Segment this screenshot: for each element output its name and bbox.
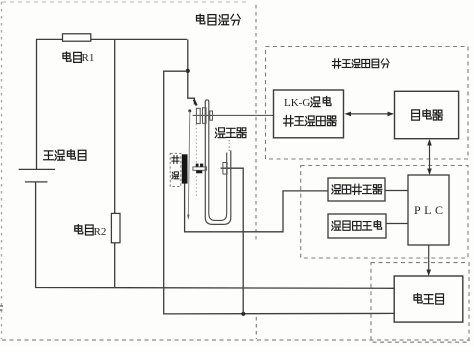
right clamp plate bbox=[223, 163, 227, 175]
arrow PLC -> 电压表 bbox=[426, 245, 431, 276]
resistor R1 bbox=[63, 34, 91, 41]
block 温度传感器 bbox=[328, 178, 385, 201]
block 电压表 (voltmeter) bbox=[394, 276, 463, 322]
label 电路部分 (circuit part title) bbox=[197, 14, 241, 25]
resistor R2 bbox=[111, 213, 120, 242]
pointer arrow along sample bbox=[187, 109, 191, 220]
clamp plate 3 (top clamp right) bbox=[210, 111, 213, 120]
block LK-G 激光位移传感器 bbox=[274, 90, 344, 138]
block 控制器 bbox=[395, 91, 459, 138]
wire: heat source to 温度传感器 bbox=[185, 184, 328, 232]
svg-text:R1: R1 bbox=[82, 52, 95, 64]
clamp plate 2 (top clamp) bbox=[203, 108, 207, 124]
wire: top loop with R1 bbox=[37, 39, 187, 169]
dotted centerline below clamp bbox=[195, 124, 197, 196]
double arrow LK-G <-> 控制器 bbox=[345, 112, 395, 117]
svg-text:PLC: PLC bbox=[414, 203, 447, 217]
wire 温度传感器 to PLC bbox=[385, 190, 408, 192]
label 电阻R2 bbox=[75, 225, 107, 238]
label 源 bbox=[172, 172, 179, 179]
micrometer clamp jaws (black) bbox=[196, 164, 204, 174]
battery 直流电源 symbol bbox=[19, 169, 55, 182]
micrometer clamp band bbox=[193, 167, 207, 170]
clamp plate 1 (top clamp) bbox=[196, 108, 200, 123]
sample bar top cap bbox=[205, 100, 209, 102]
heat source 热源 dashed label box bbox=[170, 153, 181, 186]
dashed frame: 电压表 group box bbox=[371, 263, 469, 343]
dashed frame: PLC data-acquisition group box bbox=[301, 166, 468, 259]
wire 液晶显示屏 to PLC bbox=[386, 223, 408, 225]
node junction at sample feed bbox=[186, 69, 190, 73]
sample U-tube outer wall bbox=[205, 101, 231, 224]
label 直流电源 bbox=[44, 150, 86, 160]
heat source black bar bbox=[182, 154, 188, 183]
wire: left branch down to voltmeter lower lead bbox=[164, 71, 395, 314]
svg-text:LK-G: LK-G bbox=[284, 97, 310, 109]
wire: R2 branch vertical bbox=[114, 39, 116, 287]
dashed frame: 位移测试部分 group box bbox=[266, 47, 469, 160]
sample U-tube inner wall bbox=[209, 101, 227, 220]
label 电阻R1 bbox=[63, 52, 94, 64]
double arrow 控制器 <-> PLC bbox=[427, 139, 432, 175]
block 液晶显示屏 bbox=[328, 214, 386, 238]
label 热 bbox=[172, 156, 179, 164]
wire: battery negative down and bottom rail to voltmeter bbox=[36, 182, 395, 288]
laser beam line to LK-G sensor bbox=[193, 114, 274, 116]
wire: from sample right clamp down to junction bbox=[221, 168, 244, 314]
scan artifact ticks bbox=[0, 306, 3, 310]
label 温控器 bbox=[215, 128, 246, 138]
wire: descend from top rail to sample clamp bbox=[188, 39, 195, 104]
label 位移测试部分 (displacement test part title) bbox=[333, 59, 390, 68]
svg-text:R2: R2 bbox=[94, 226, 107, 238]
node junction on lower voltmeter lead bbox=[241, 312, 245, 316]
dotted continuation of right wall bbox=[228, 140, 230, 153]
block PLC bbox=[408, 175, 449, 245]
